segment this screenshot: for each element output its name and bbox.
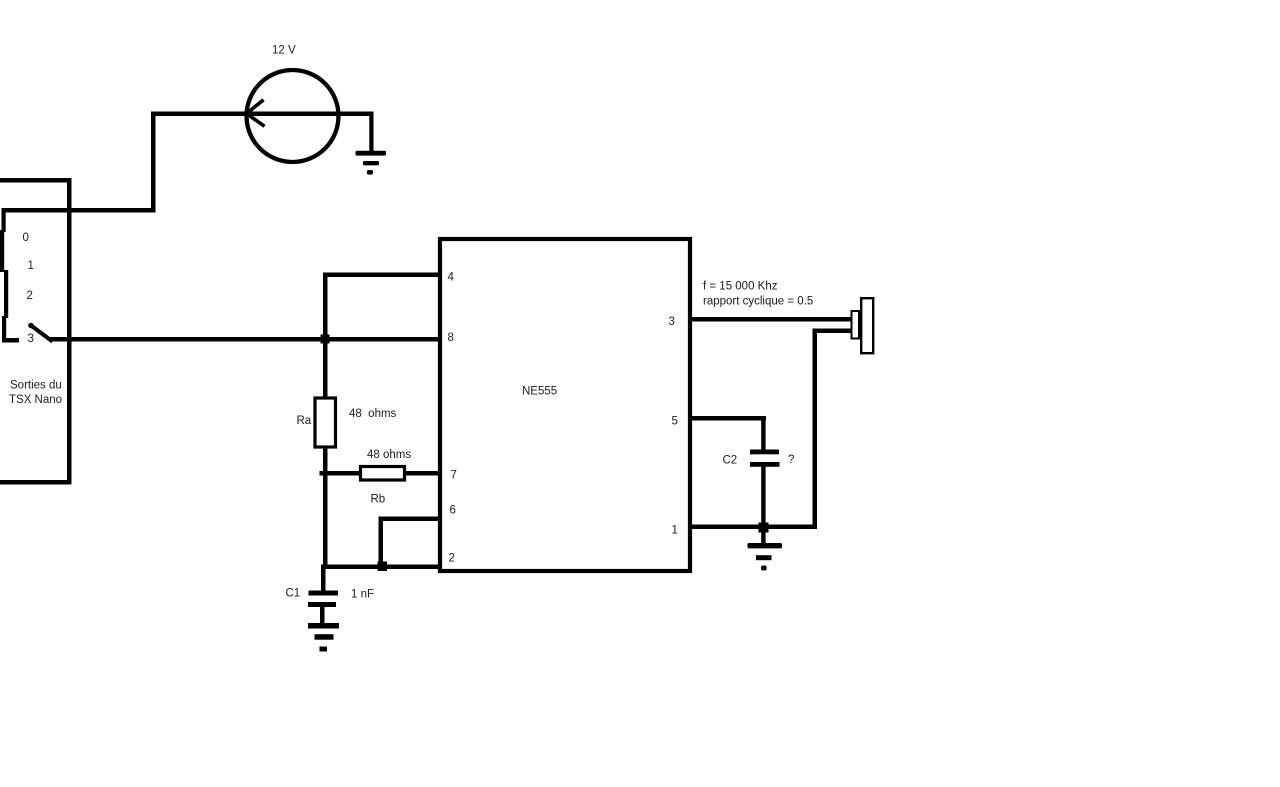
junction node pin1/C2/ground — [759, 523, 769, 533]
TSX Nano box top edge — [0, 178, 71, 183]
ground symbol G1 (12V source) — [356, 151, 387, 175]
svg-text:8: 8 — [448, 332, 454, 344]
svg-text:Sorties du: Sorties du — [10, 380, 62, 392]
junction node pin6/pin2 — [378, 562, 388, 572]
svg-text:C2: C2 — [723, 455, 738, 467]
svg-text:48 ohms: 48 ohms — [349, 408, 397, 420]
svg-text:48 ohms: 48 ohms — [367, 449, 411, 461]
svg-text:Ra: Ra — [297, 415, 312, 427]
wire NE555 pin 6 — [379, 517, 440, 522]
wire switch to NE555 pin 8 — [50, 337, 439, 342]
svg-text:12 V: 12 V — [272, 45, 296, 57]
voltage source V1 arrow head — [247, 100, 265, 127]
svg-text:3: 3 — [28, 333, 34, 345]
wire pin 6 vertical down — [379, 517, 384, 569]
wire NE555 pin 1 — [690, 525, 817, 530]
svg-text:0: 0 — [23, 232, 29, 244]
wire C1 to ground — [320, 606, 325, 624]
svg-text:rapport cyclique = 0.5: rapport cyclique = 0.5 — [703, 296, 813, 308]
svg-text:2: 2 — [27, 290, 33, 302]
svg-text:1 nF: 1 nF — [351, 589, 374, 601]
wire junction down to Ra — [323, 339, 328, 398]
wire vertical riser x=153 up to 12V line — [151, 112, 156, 213]
wire pin 5 down to C2 — [761, 416, 765, 450]
buzzer small plate — [852, 311, 860, 339]
wire Rb to NE555 pin 7 — [404, 471, 439, 476]
wire NE555 pin 2 — [321, 565, 439, 570]
connector common line inside TSX box — [0, 208, 19, 343]
resistor Rb — [361, 467, 405, 481]
svg-text:2: 2 — [449, 553, 455, 565]
wire horizontal through 12V source — [153, 112, 374, 117]
ground symbol G2 (pin 1) — [748, 543, 783, 571]
wire junction to ground — [761, 529, 765, 544]
wire C2 down to pin1 line — [761, 466, 765, 527]
svg-text:1: 1 — [28, 260, 34, 272]
ground symbol G3 (C1) — [308, 623, 339, 652]
TSX Nano box right edge — [67, 178, 72, 484]
junction node at pin-4 branch — [321, 335, 330, 344]
svg-text:1: 1 — [672, 525, 678, 537]
resistor Ra — [315, 398, 336, 447]
svg-text:3: 3 — [669, 316, 675, 328]
svg-text:NE555: NE555 — [522, 386, 557, 398]
wire buzzer return vertical — [813, 329, 818, 529]
svg-text:4: 4 — [448, 272, 455, 284]
svg-text:6: 6 — [450, 505, 456, 517]
svg-text:TSX Nano: TSX Nano — [9, 394, 62, 406]
capacitor C2 — [750, 450, 780, 467]
capacitor C1 — [308, 591, 338, 608]
wire from TSX box top to 12V source (horizontal y=210) — [2, 208, 155, 213]
svg-text:Rb: Rb — [371, 494, 386, 506]
wire down to C1 — [321, 565, 326, 592]
svg-text:7: 7 — [451, 470, 457, 482]
switch blade (output 3) — [28, 323, 34, 329]
buzzer large plate — [861, 298, 873, 353]
wire buzzer return horizontal — [813, 329, 852, 334]
svg-text:5: 5 — [672, 416, 678, 428]
wire NE555 pin 3 to buzzer — [690, 317, 852, 322]
wire to NE555 pin 4 — [323, 273, 439, 278]
svg-text:?: ? — [788, 454, 794, 466]
wire Ra bottom down to pin2 line — [323, 447, 328, 568]
voltage source V1 circle — [247, 70, 339, 162]
TSX Nano box bottom edge — [0, 480, 71, 485]
svg-text:C1: C1 — [286, 588, 301, 600]
svg-text:f = 15 000 Khz: f = 15 000 Khz — [703, 281, 778, 293]
wire NE555 pin 5 — [690, 416, 766, 421]
op IC NE555 box U1 — [440, 239, 690, 571]
wire vertical from 12V line down to ground — [369, 113, 373, 153]
wire pin 4 branch vertical — [323, 273, 328, 341]
wire pin 7 left stub — [320, 471, 361, 476]
